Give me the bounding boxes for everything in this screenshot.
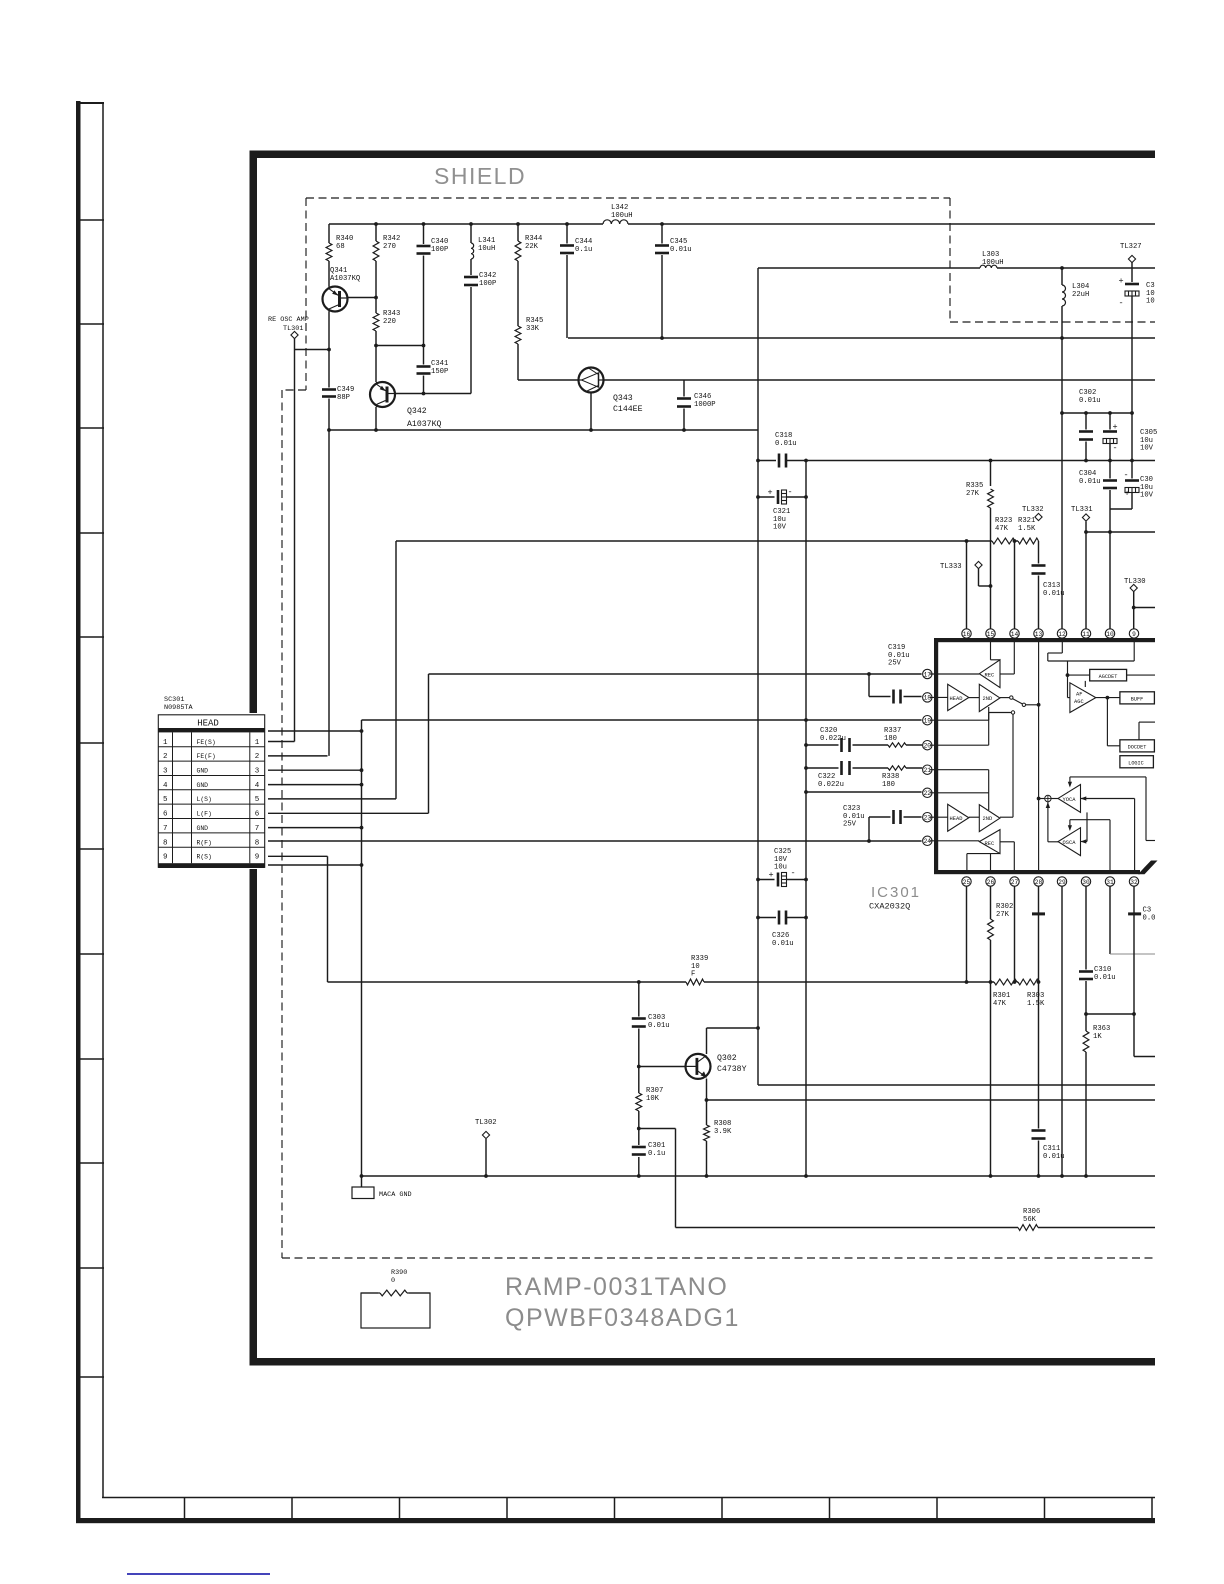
svg-text:AGCDET: AGCDET [1099, 674, 1118, 680]
svg-text:1: 1 [255, 739, 260, 747]
svg-text:Q341: Q341 [330, 267, 347, 275]
svg-text:GND: GND [197, 768, 209, 775]
svg-text:C304: C304 [1079, 470, 1096, 478]
svg-text:CXA2032Q: CXA2032Q [869, 902, 910, 912]
svg-text:25V: 25V [843, 821, 857, 829]
svg-text:R344: R344 [525, 235, 542, 243]
svg-text:Q343: Q343 [613, 394, 633, 403]
svg-text:10V: 10V [1140, 492, 1154, 500]
svg-text:1K: 1K [1093, 1033, 1102, 1041]
svg-text:C349: C349 [337, 386, 354, 394]
svg-text:N0985TA: N0985TA [164, 704, 193, 712]
svg-text:47K: 47K [993, 1000, 1007, 1008]
svg-text:0.01u: 0.01u [843, 813, 865, 821]
svg-text:180: 180 [884, 735, 897, 743]
svg-text:C322: C322 [818, 773, 835, 781]
svg-text:+: + [767, 488, 772, 498]
svg-text:0.022u: 0.022u [818, 781, 844, 789]
svg-text:IC301: IC301 [871, 884, 921, 901]
svg-text:14: 14 [1011, 631, 1019, 638]
svg-text:DOCDET: DOCDET [1128, 745, 1147, 751]
svg-text:32: 32 [1130, 879, 1138, 886]
svg-text:C344: C344 [575, 238, 592, 246]
svg-text:+: + [1118, 276, 1123, 286]
svg-text:R390: R390 [391, 1269, 407, 1277]
svg-text:-: - [1123, 470, 1128, 480]
svg-text:12: 12 [1058, 631, 1066, 638]
svg-text:C144EE: C144EE [613, 405, 643, 414]
svg-text:16: 16 [963, 631, 971, 638]
svg-text:GND: GND [197, 782, 209, 789]
svg-text:R363: R363 [1093, 1025, 1110, 1033]
svg-text:150P: 150P [431, 368, 448, 376]
svg-text:+: + [1124, 489, 1129, 499]
svg-text:F: F [691, 971, 695, 979]
svg-text:TL302: TL302 [475, 1119, 497, 1127]
svg-text:1: 1 [163, 739, 168, 747]
svg-text:11: 11 [1082, 631, 1090, 638]
svg-text:9: 9 [255, 854, 260, 862]
svg-text:-: - [1112, 443, 1117, 453]
svg-text:15: 15 [987, 631, 995, 638]
svg-text:R301: R301 [993, 992, 1010, 1000]
svg-text:RAMP-0031TANO: RAMP-0031TANO [505, 1273, 728, 1301]
svg-text:10u: 10u [774, 864, 787, 872]
svg-text:OSCA: OSCA [1063, 840, 1077, 846]
svg-text:0.01u: 0.01u [775, 440, 797, 448]
svg-text:1.5K: 1.5K [1027, 1000, 1045, 1008]
svg-text:0.01u: 0.01u [1079, 478, 1101, 486]
svg-text:27: 27 [1011, 879, 1019, 886]
svg-text:10V: 10V [1140, 445, 1154, 453]
svg-text:10u: 10u [1140, 437, 1153, 445]
svg-text:FE(S): FE(S) [197, 739, 216, 746]
svg-text:+: + [768, 870, 773, 880]
svg-text:TL330: TL330 [1124, 578, 1146, 586]
svg-text:10u: 10u [773, 516, 786, 524]
svg-text:27K: 27K [996, 911, 1010, 919]
svg-text:21: 21 [924, 767, 932, 774]
svg-text:R323: R323 [995, 517, 1012, 525]
svg-text:R339: R339 [691, 955, 708, 963]
svg-text:6: 6 [163, 811, 168, 819]
svg-text:6: 6 [255, 811, 260, 819]
svg-text:REC: REC [985, 672, 995, 678]
svg-text:3: 3 [255, 768, 260, 776]
svg-text:R343: R343 [383, 310, 400, 318]
svg-text:C323: C323 [843, 805, 860, 813]
svg-text:10V: 10V [773, 524, 787, 532]
svg-text:-: - [787, 487, 792, 497]
svg-text:C321: C321 [773, 508, 790, 516]
svg-text:C340: C340 [431, 238, 448, 246]
svg-text:R340: R340 [336, 235, 353, 243]
svg-text:0.01u: 0.01u [888, 652, 910, 660]
svg-text:28: 28 [1035, 879, 1043, 886]
svg-text:17: 17 [924, 671, 932, 678]
svg-text:10u: 10u [1140, 484, 1153, 492]
svg-text:2: 2 [255, 753, 260, 761]
svg-text:C311: C311 [1043, 1145, 1060, 1153]
svg-text:13: 13 [1035, 631, 1043, 638]
svg-text:10: 10 [691, 963, 700, 971]
svg-text:10: 10 [1146, 290, 1155, 298]
svg-text:19: 19 [924, 718, 932, 725]
svg-text:SC301: SC301 [164, 696, 184, 704]
svg-text:C341: C341 [431, 360, 448, 368]
svg-text:MACA GND: MACA GND [379, 1191, 412, 1199]
svg-text:R(F): R(F) [197, 839, 212, 846]
svg-text:100P: 100P [479, 280, 496, 288]
svg-text:C318: C318 [775, 432, 792, 440]
svg-text:2ND: 2ND [983, 696, 993, 702]
svg-text:10: 10 [1146, 298, 1155, 306]
svg-text:8: 8 [163, 839, 168, 847]
svg-text:0.01u: 0.01u [1094, 974, 1116, 982]
svg-text:C342: C342 [479, 272, 496, 280]
svg-text:0.1u: 0.1u [575, 246, 592, 254]
svg-text:R306: R306 [1023, 1208, 1040, 1216]
svg-text:R308: R308 [714, 1120, 731, 1128]
svg-text:AF: AF [1076, 692, 1082, 698]
svg-text:3.9K: 3.9K [714, 1128, 732, 1136]
svg-text:0.01u: 0.01u [670, 246, 692, 254]
svg-text:5: 5 [255, 796, 260, 804]
svg-text:C325: C325 [774, 848, 791, 856]
svg-text:27K: 27K [966, 490, 980, 498]
svg-text:10: 10 [1106, 631, 1114, 638]
svg-text:7: 7 [163, 825, 168, 833]
svg-text:9: 9 [1132, 631, 1136, 638]
svg-text:68: 68 [336, 243, 345, 251]
svg-text:30: 30 [1082, 879, 1090, 886]
svg-text:BUFF: BUFF [1131, 697, 1143, 703]
svg-text:25V: 25V [888, 660, 902, 668]
svg-text:C310: C310 [1094, 966, 1111, 974]
svg-text:4: 4 [163, 782, 168, 790]
svg-text:2ND: 2ND [983, 816, 993, 822]
svg-text:HEAD: HEAD [950, 696, 963, 702]
svg-text:AGC: AGC [1074, 699, 1084, 705]
svg-text:C303: C303 [648, 1014, 665, 1022]
svg-text:HEAD: HEAD [197, 719, 219, 729]
svg-text:47K: 47K [995, 525, 1009, 533]
svg-text:C326: C326 [772, 932, 789, 940]
svg-text:22uH: 22uH [1072, 291, 1089, 299]
svg-text:TL331: TL331 [1071, 506, 1093, 514]
svg-text:220: 220 [383, 318, 396, 326]
svg-text:1000P: 1000P [694, 401, 716, 409]
svg-text:R302: R302 [996, 903, 1013, 911]
svg-text:TL333: TL333 [940, 563, 962, 571]
svg-text:Q302: Q302 [717, 1054, 737, 1063]
svg-text:R345: R345 [526, 317, 543, 325]
svg-text:29: 29 [1058, 879, 1066, 886]
svg-text:C301: C301 [648, 1142, 665, 1150]
svg-text:56K: 56K [1023, 1216, 1037, 1224]
svg-text:88P: 88P [337, 394, 350, 402]
svg-text:C4738Y: C4738Y [717, 1065, 747, 1074]
svg-text:24: 24 [924, 838, 932, 845]
svg-text:L342: L342 [611, 204, 628, 212]
svg-text:9: 9 [163, 854, 168, 862]
svg-text:R335: R335 [966, 482, 983, 490]
svg-text:3: 3 [163, 768, 168, 776]
svg-text:QPWBF0348ADG1: QPWBF0348ADG1 [505, 1304, 740, 1332]
svg-text:7: 7 [255, 825, 260, 833]
svg-text:8: 8 [255, 839, 260, 847]
svg-text:270: 270 [383, 243, 396, 251]
svg-text:A1037KQ: A1037KQ [330, 275, 360, 283]
svg-text:4: 4 [255, 782, 260, 790]
svg-text:REC: REC [985, 841, 995, 847]
svg-text:0.1u: 0.1u [648, 1150, 665, 1158]
svg-text:RE OSC AMP: RE OSC AMP [268, 316, 309, 324]
svg-text:R(S): R(S) [197, 854, 212, 861]
svg-text:+: + [1112, 422, 1117, 432]
svg-text:C320: C320 [820, 727, 837, 735]
svg-text:0.01u: 0.01u [648, 1022, 670, 1030]
svg-text:C3: C3 [1146, 282, 1155, 290]
svg-text:C302: C302 [1079, 389, 1096, 397]
svg-text:C313: C313 [1043, 582, 1060, 590]
svg-text:C346: C346 [694, 393, 711, 401]
svg-text:1.5K: 1.5K [1018, 525, 1036, 533]
svg-text:TL301: TL301 [283, 325, 303, 333]
svg-text:YOCA: YOCA [1063, 797, 1077, 803]
svg-text:100uH: 100uH [982, 259, 1004, 267]
svg-text:-: - [1118, 298, 1123, 308]
svg-text:A1037KQ: A1037KQ [407, 420, 441, 429]
svg-text:C345: C345 [670, 238, 687, 246]
svg-text:HEAD: HEAD [950, 816, 963, 822]
svg-text:25: 25 [963, 879, 971, 886]
svg-text:20: 20 [924, 743, 932, 750]
svg-text:5: 5 [163, 796, 168, 804]
svg-text:C30: C30 [1140, 476, 1153, 484]
svg-text:0.01u: 0.01u [1043, 590, 1065, 598]
svg-text:FE(F): FE(F) [197, 753, 216, 760]
svg-text:L341: L341 [478, 237, 495, 245]
svg-text:L303: L303 [982, 251, 999, 259]
svg-text:22K: 22K [525, 243, 539, 251]
svg-text:0.01u: 0.01u [1043, 1153, 1065, 1161]
svg-text:TL332: TL332 [1022, 506, 1044, 514]
svg-text:R303: R303 [1027, 992, 1044, 1000]
svg-text:R342: R342 [383, 235, 400, 243]
svg-text:22: 22 [924, 790, 932, 797]
svg-text:0.01u: 0.01u [1079, 397, 1101, 405]
svg-text:0.022u: 0.022u [820, 735, 846, 743]
svg-text:C305: C305 [1140, 429, 1157, 437]
svg-text:10K: 10K [646, 1095, 660, 1103]
svg-text:18: 18 [924, 695, 932, 702]
svg-text:0.0: 0.0 [1143, 915, 1156, 923]
svg-text:31: 31 [1106, 879, 1114, 886]
svg-text:26: 26 [987, 879, 995, 886]
svg-text:L(F): L(F) [197, 811, 212, 818]
svg-text:2: 2 [163, 753, 168, 761]
svg-text:Q342: Q342 [407, 407, 427, 416]
svg-text:LOGIC: LOGIC [1128, 760, 1144, 766]
svg-text:C3: C3 [1143, 907, 1152, 915]
svg-text:180: 180 [882, 781, 895, 789]
svg-text:R337: R337 [884, 727, 901, 735]
svg-text:R307: R307 [646, 1087, 663, 1095]
svg-text:C319: C319 [888, 644, 905, 652]
svg-text:100uH: 100uH [611, 212, 633, 220]
svg-text:SHIELD: SHIELD [434, 163, 526, 189]
svg-text:TL327: TL327 [1120, 243, 1142, 251]
svg-text:R338: R338 [882, 773, 899, 781]
svg-text:100P: 100P [431, 246, 448, 254]
svg-text:0: 0 [391, 1277, 395, 1285]
svg-text:10V: 10V [774, 856, 788, 864]
svg-text:0.01u: 0.01u [772, 940, 794, 948]
svg-text:-: - [790, 868, 795, 878]
svg-text:R321: R321 [1018, 517, 1035, 525]
svg-text:L304: L304 [1072, 283, 1089, 291]
svg-text:10uH: 10uH [478, 245, 495, 253]
svg-text:33K: 33K [526, 325, 540, 333]
svg-text:GND: GND [197, 825, 209, 832]
svg-text:23: 23 [924, 815, 932, 822]
svg-text:L(S): L(S) [197, 796, 212, 803]
